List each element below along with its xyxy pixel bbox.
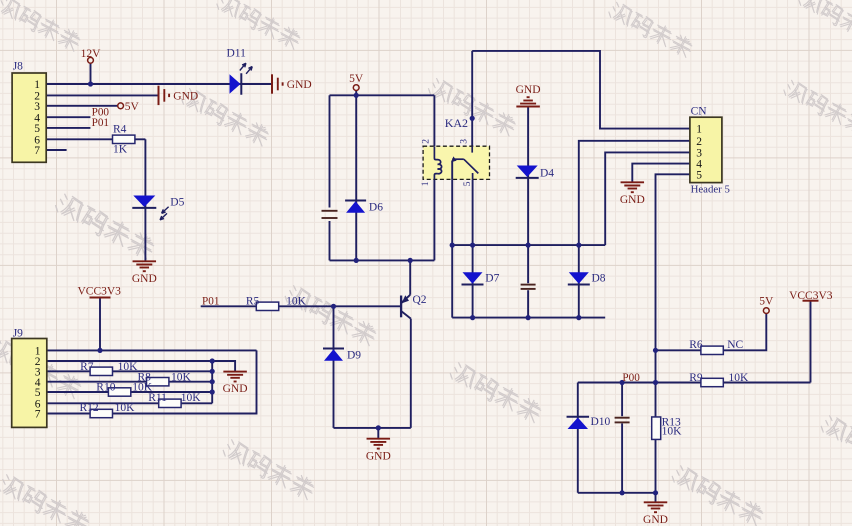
svg-text:5: 5: [34, 123, 40, 135]
svg-text:P00: P00: [622, 372, 640, 384]
svg-text:5: 5: [463, 181, 473, 186]
svg-text:KA2: KA2: [445, 116, 468, 130]
svg-text:7: 7: [34, 145, 40, 157]
svg-text:3: 3: [460, 139, 470, 144]
svg-text:Q2: Q2: [413, 294, 427, 306]
svg-text:5V: 5V: [125, 101, 140, 113]
svg-text:P01: P01: [202, 296, 219, 308]
svg-text:GND: GND: [223, 383, 248, 395]
svg-text:R6: R6: [689, 339, 703, 351]
svg-text:10K: 10K: [118, 361, 139, 373]
svg-text:5: 5: [35, 387, 41, 399]
svg-text:D8: D8: [592, 273, 606, 285]
svg-text:NC: NC: [727, 339, 743, 351]
svg-text:GND: GND: [287, 79, 312, 91]
svg-text:GND: GND: [516, 84, 541, 96]
svg-text:5V: 5V: [349, 73, 364, 85]
svg-text:CN: CN: [691, 106, 708, 118]
svg-text:R9: R9: [689, 372, 703, 384]
svg-text:VCC3V3: VCC3V3: [77, 285, 121, 297]
svg-text:3: 3: [34, 101, 40, 113]
svg-text:J9: J9: [13, 328, 23, 340]
svg-text:2: 2: [696, 136, 702, 148]
svg-text:GND: GND: [643, 514, 668, 526]
svg-text:R11: R11: [148, 392, 167, 404]
svg-text:Header 5: Header 5: [691, 183, 730, 195]
svg-text:D4: D4: [540, 167, 554, 179]
svg-text:GND: GND: [366, 450, 391, 462]
svg-text:D9: D9: [347, 349, 361, 361]
svg-text:1: 1: [421, 181, 431, 186]
svg-text:R10: R10: [96, 382, 115, 394]
svg-text:5: 5: [696, 169, 702, 181]
svg-text:10K: 10K: [662, 425, 683, 437]
svg-text:D10: D10: [591, 416, 611, 428]
svg-text:GND: GND: [620, 194, 645, 206]
svg-text:R12: R12: [80, 402, 99, 414]
svg-text:1: 1: [696, 124, 702, 136]
svg-text:3: 3: [696, 147, 702, 159]
svg-text:5V: 5V: [759, 295, 774, 307]
svg-text:J8: J8: [13, 61, 23, 73]
svg-text:10K: 10K: [115, 402, 136, 414]
svg-text:10K: 10K: [729, 372, 750, 384]
svg-text:D5: D5: [170, 196, 184, 208]
svg-text:10K: 10K: [171, 372, 192, 384]
svg-text:D11: D11: [227, 48, 247, 60]
svg-text:P01: P01: [92, 117, 109, 129]
svg-text:7: 7: [35, 409, 41, 421]
svg-text:R7: R7: [80, 361, 94, 373]
svg-text:GND: GND: [132, 273, 157, 285]
svg-text:12V: 12V: [81, 48, 102, 60]
svg-text:1: 1: [34, 79, 40, 91]
svg-text:10K: 10K: [181, 392, 202, 404]
svg-text:2: 2: [422, 139, 432, 144]
svg-text:10K: 10K: [286, 296, 307, 308]
svg-text:R5: R5: [246, 296, 260, 308]
svg-text:D6: D6: [369, 201, 383, 213]
svg-text:D7: D7: [485, 273, 499, 285]
svg-text:R4: R4: [113, 123, 127, 135]
svg-text:1K: 1K: [113, 144, 128, 156]
svg-text:GND: GND: [173, 91, 198, 103]
